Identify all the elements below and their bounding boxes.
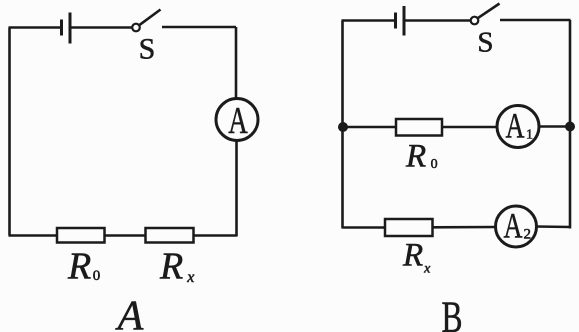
wire (B left vertical): [341, 21, 344, 229]
ammeter A (circuit A): [216, 99, 258, 142]
ammeter A1 (circuit B): [497, 106, 539, 148]
svg-text:Rx: Rx: [159, 246, 194, 288]
svg-text:B: B: [442, 293, 463, 332]
wire (B top, left of battery): [342, 19, 395, 22]
wire (B right vertical): [569, 20, 572, 229]
wire (A left vertical): [8, 28, 11, 236]
battery (circuit A): [62, 13, 71, 44]
wire (A top, left of battery): [9, 26, 61, 29]
wire (B bottom branch, left segment): [343, 226, 386, 229]
wire (B bottom branch, A2 to right): [537, 225, 571, 228]
wire (B middle branch, R0 to A1): [442, 126, 498, 129]
ammeter A2 (circuit B): [496, 206, 537, 248]
wire (A right vertical, lower): [235, 141, 238, 237]
wire (A right vertical, upper): [235, 27, 238, 100]
svg-text:Rx: Rx: [402, 238, 431, 277]
wire (B top, right of switch): [500, 19, 571, 22]
switch S (circuit A): [132, 10, 160, 32]
svg-text:S: S: [477, 27, 493, 59]
svg-text:1: 1: [526, 128, 533, 143]
wire (A battery to switch): [72, 26, 133, 29]
svg-text:S: S: [139, 33, 156, 66]
switch S (circuit B): [471, 4, 500, 25]
wire (B bottom branch, Rx to A2): [433, 226, 497, 229]
svg-text:A: A: [228, 100, 248, 142]
wire (B middle branch, left segment): [343, 126, 397, 129]
svg-text:A: A: [506, 106, 525, 146]
wire (A bottom): [9, 234, 237, 237]
svg-text:R0: R0: [405, 139, 438, 175]
wire (A top, right of switch): [162, 26, 236, 29]
svg-text:R0: R0: [67, 246, 100, 288]
resistor Rx (circuit A): [146, 228, 194, 243]
resistor Rx (circuit B): [385, 219, 433, 236]
node (junction, right): [565, 122, 575, 132]
svg-text:A: A: [504, 206, 523, 246]
wire (B battery to switch): [406, 19, 472, 22]
resistor R0 (circuit B): [396, 119, 442, 136]
svg-text:2: 2: [524, 227, 532, 243]
resistor R0 (circuit A): [57, 228, 105, 243]
wire (B middle branch, A1 to right): [539, 125, 571, 128]
node (junction, left): [338, 122, 348, 132]
svg-text:A: A: [115, 294, 144, 332]
battery (circuit B): [396, 6, 405, 36]
